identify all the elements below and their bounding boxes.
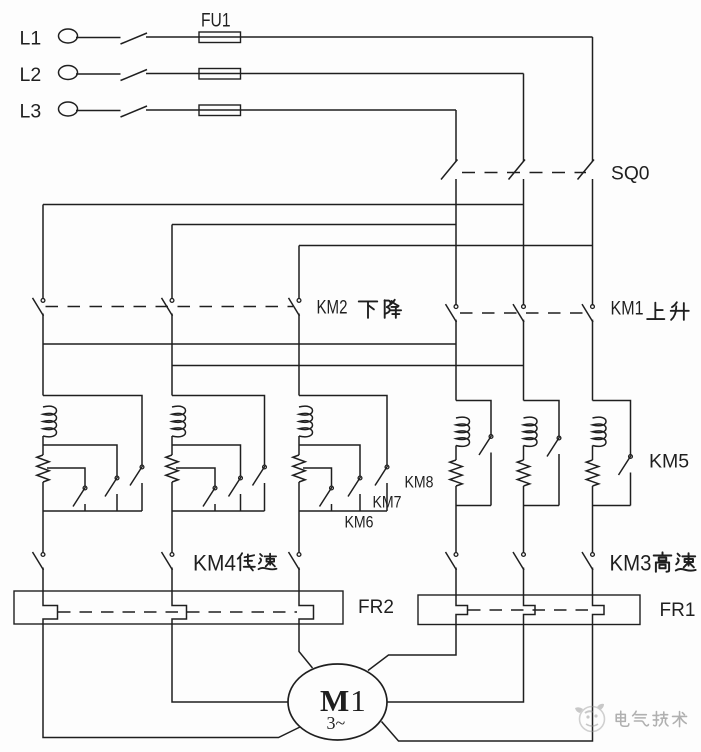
wire KM7 pole lower xyxy=(359,494,361,511)
wire L1 switch through fuse to drop xyxy=(146,36,593,38)
svg-text:KM3: KM3 xyxy=(610,551,652,576)
contact KM6 pole (branch 1) xyxy=(73,486,87,506)
FR1 heater element at x=456 xyxy=(456,595,468,625)
wire branch5 coil to resistor xyxy=(523,446,525,461)
contact KM5 pole (branch 5) xyxy=(547,436,561,456)
reactor coil (branch 5) xyxy=(524,417,538,446)
FR1 heater element at x=592.5 xyxy=(593,595,605,625)
wire tap (KM2 phase A from L2 drop) xyxy=(43,204,524,206)
wire FR1 out phase3 to motor (lower-right lead) xyxy=(382,625,593,742)
wire branch6 bottom tie bar xyxy=(593,505,631,507)
terminal circle L2 xyxy=(59,66,78,80)
motor M1 circle xyxy=(288,664,387,740)
wire KM1 lower vertical xyxy=(592,320,594,401)
wire branch5 KM3 to FR1 xyxy=(523,568,525,596)
wire branch3 coil-resistor segment and tap2 xyxy=(299,436,360,476)
wire branch6 resistor to KM3 xyxy=(592,486,594,552)
svg-text:L3: L3 xyxy=(20,101,42,123)
contactor KM2 main contact at x=172 xyxy=(162,298,174,316)
wire KM6 pole lower xyxy=(84,504,86,511)
wire branch1 bottom tie bar xyxy=(43,510,142,512)
wire SQ0 lower xyxy=(455,179,457,305)
wire branch4 resistor to KM3 xyxy=(455,486,457,552)
wire branch2 KM4 to FR2 xyxy=(171,568,173,592)
svg-text:L2: L2 xyxy=(20,64,42,86)
wire tap (KM2 phase C from L1 drop) xyxy=(299,245,593,247)
wire branch6 KM3 to FR1 xyxy=(592,568,594,596)
FR2 heater element at x=43 xyxy=(43,591,58,624)
wire L2 to disconnect switch xyxy=(76,73,121,75)
contact KM7 pole (branch 3) xyxy=(348,476,362,496)
wire KM2 lower vertical xyxy=(298,314,300,396)
wire tap (KM2 phase B from L3 drop) xyxy=(172,224,456,226)
wire L2 switch through fuse to drop xyxy=(146,73,524,75)
wire branch2 coil-resistor segment and tap2 xyxy=(172,436,241,476)
wire branch4 KM3 to FR1 xyxy=(455,568,457,596)
wire L1 to disconnect switch xyxy=(76,37,121,39)
wire branch4 bottom tie bar xyxy=(456,505,491,507)
wire branch1 coil-resistor segment and tap2 xyxy=(43,436,117,476)
wire branch5 resistor to KM3 xyxy=(523,486,525,552)
contact KM7 pole (branch 2) xyxy=(229,476,243,496)
contactor KM2 main contact at x=299 xyxy=(289,298,301,316)
wire branch5 tap to KM5 pole xyxy=(524,401,560,437)
wire branch6 tap to KM5 pole xyxy=(593,401,631,455)
contactor KM1 main contact at x=523.5 xyxy=(513,304,525,322)
wire KM2 lower vertical xyxy=(171,314,173,396)
wire KM7 pole lower xyxy=(240,494,242,511)
wire KM1 lower vertical xyxy=(523,320,525,401)
FR1 trip dashed line xyxy=(468,609,592,611)
wire L3 switch through fuse to drop xyxy=(146,109,456,111)
svg-text:3~: 3~ xyxy=(327,713,346,733)
wire KM8 pole lower xyxy=(141,483,143,511)
contactor KM4 contact (branch 2) xyxy=(162,552,174,570)
contactor KM1 main contact at x=592.5 xyxy=(582,304,594,322)
contactor KM4 contact (branch 1) xyxy=(33,552,45,570)
reactor coil (branch 4) xyxy=(456,417,470,446)
wire branch2 tap to bypass colA xyxy=(172,396,265,466)
starting resistor (branch 1) xyxy=(37,455,49,482)
wire KM7 pole lower xyxy=(116,494,118,511)
wire SQ0 lower xyxy=(592,179,594,305)
svg-text:KM7: KM7 xyxy=(373,493,402,512)
contactor KM3 contact (branch 4) xyxy=(446,552,458,570)
SQ0 linkage dashed line xyxy=(462,172,586,174)
reactor coil (branch 2) xyxy=(172,406,186,437)
wire L1 vertical drop xyxy=(592,37,594,162)
wire branch1 KM4 to FR2 xyxy=(42,568,44,592)
contact KM7 pole (branch 1) xyxy=(105,476,119,496)
thermal relay FR2 box xyxy=(14,591,343,624)
svg-text:KM8: KM8 xyxy=(405,473,434,492)
KM2 linkage dashed line xyxy=(46,306,294,308)
disconnect switch blade (row L3) xyxy=(121,106,148,117)
wire KM5 pole lower xyxy=(558,454,560,506)
wire KM8 pole lower xyxy=(264,483,266,511)
wire FR2 out phase2 to motor (left lead) xyxy=(172,624,289,702)
reactor coil (branch 1) xyxy=(43,406,57,437)
wire KM2 upper vertical branch2 xyxy=(171,225,173,299)
contact KM6 pole (branch 3) xyxy=(320,486,334,506)
terminal circle L3 xyxy=(59,102,78,116)
wire branch4 tap to KM5 pole xyxy=(456,401,491,435)
starting resistor (branch 3) xyxy=(293,455,305,482)
wire branch2 resistor to tie / down to KM4 xyxy=(171,482,173,552)
wire branch3 KM4 to FR2 xyxy=(298,568,300,592)
wire branch1 resistor to tie / down to KM4 xyxy=(42,482,44,552)
starting resistor (branch 5) xyxy=(517,460,529,486)
contactor KM4 contact (branch 3) xyxy=(289,552,301,570)
wire L2 vertical drop xyxy=(523,74,525,162)
KM1 linkage dashed line xyxy=(460,312,586,314)
svg-text:FU1: FU1 xyxy=(201,9,231,31)
svg-text:KM2: KM2 xyxy=(317,297,348,319)
wire SQ0 lower xyxy=(523,179,525,305)
contactor KM3 contact (branch 5) xyxy=(513,552,525,570)
svg-text:L1: L1 xyxy=(20,28,42,50)
wire branch3 resistor mid tap3 xyxy=(303,468,332,486)
contact KM5 pole (branch 4) xyxy=(479,435,493,455)
svg-text:SQ0: SQ0 xyxy=(611,163,650,185)
wire branch1 tap to bypass colA xyxy=(43,396,142,466)
contactor KM3 contact (branch 6) xyxy=(582,552,594,570)
svg-text:KM6: KM6 xyxy=(345,513,374,532)
contact KM6 pole (branch 2) xyxy=(203,486,217,506)
wire L3 vertical drop xyxy=(455,110,457,162)
terminal circle L1 xyxy=(59,29,78,43)
watermark CJK text (electric technology) xyxy=(616,711,686,726)
FR2 trip dashed line xyxy=(58,611,297,613)
wire KM6 pole lower xyxy=(214,504,216,511)
wire FR2 out phase3 to motor (upper-left lead) xyxy=(299,624,313,668)
reactor coil (branch 6) xyxy=(593,417,607,446)
wire branch3 bottom tie bar xyxy=(299,510,387,512)
starting resistor (branch 6) xyxy=(586,460,598,486)
wire FR2 out phase1 to motor (lower-left lead) xyxy=(43,624,300,738)
fuse FU1 element (row L3) xyxy=(199,105,241,116)
wire FR1 out phase2 to motor (right lead) xyxy=(387,625,524,703)
wire branch1 resistor mid tap3 xyxy=(47,468,85,486)
wire branch3 tap to bypass colA xyxy=(299,396,387,466)
contactor KM2 main contact at x=43 xyxy=(33,298,45,316)
svg-text:KM1: KM1 xyxy=(611,299,644,320)
svg-text:KM5: KM5 xyxy=(649,451,689,473)
wire branch2 resistor mid tap3 xyxy=(176,468,215,486)
limit switch SQ0 contact blade xyxy=(578,160,595,180)
fuse FU1 element (row L1) xyxy=(199,32,241,43)
wire KM5 pole lower xyxy=(490,453,492,506)
wire KM5 pole lower xyxy=(630,473,632,506)
contactor KM1 main contact at x=456 xyxy=(446,304,458,322)
wire branch2 bottom tie bar xyxy=(172,510,265,512)
starting resistor (branch 2) xyxy=(166,455,178,482)
contact KM8 pole (branch 3) xyxy=(375,465,389,485)
starting resistor (branch 4) xyxy=(450,460,462,486)
reactor coil (branch 3) xyxy=(299,406,313,437)
wire FR1 out phase1 to motor (upper-right lead) xyxy=(368,625,456,671)
wire branch4 coil to resistor xyxy=(455,446,457,461)
wire L3 to disconnect switch xyxy=(76,110,121,112)
wire branch6 coil to resistor xyxy=(592,446,594,461)
disconnect switch blade (row L1) xyxy=(121,33,148,44)
fuse FU1 element (row L2) xyxy=(199,69,241,80)
svg-text:FR1: FR1 xyxy=(660,600,696,621)
FR2 heater element at x=172 xyxy=(172,591,187,624)
limit switch SQ0 contact blade xyxy=(441,160,458,180)
wire KM1 lower vertical xyxy=(455,320,457,401)
watermark logo blob xyxy=(575,704,605,732)
wire KM2 lower vertical xyxy=(42,314,44,396)
wire branch5 bottom tie bar xyxy=(524,505,560,507)
contact KM8 pole (branch 2) xyxy=(253,465,267,485)
wire KM8 pole lower xyxy=(386,483,388,511)
FR2 heater element at x=299 xyxy=(299,591,314,624)
disconnect switch blade (row L2) xyxy=(121,70,148,81)
svg-text:FR2: FR2 xyxy=(358,597,394,618)
limit switch SQ0 contact blade xyxy=(509,160,526,180)
FR1 heater element at x=523.5 xyxy=(524,595,536,625)
svg-text:KM4: KM4 xyxy=(193,551,236,576)
wire branch3 resistor to tie / down to KM4 xyxy=(298,482,300,552)
wire KM2 upper vertical branch3 xyxy=(298,246,300,299)
wire bus tie phase U (KM2 out to KM1 out) xyxy=(43,343,456,345)
wire KM2 upper vertical branch1 xyxy=(42,205,44,299)
wire KM6 pole lower xyxy=(331,504,333,511)
contact KM8 pole (branch 1) xyxy=(130,465,144,485)
thermal relay FR1 box xyxy=(418,595,640,625)
wire bus tie phase V xyxy=(172,365,524,367)
contact KM5 pole (branch 6) xyxy=(619,455,633,475)
